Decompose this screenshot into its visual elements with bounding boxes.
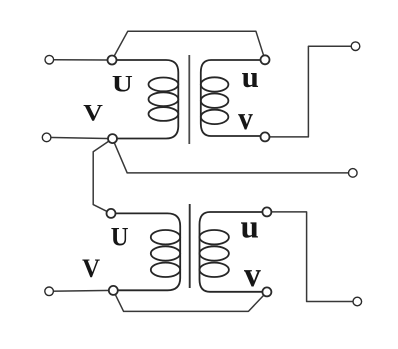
wire crossover bottom: V node under to v node (bottom transformer) bbox=[113, 290, 267, 311]
svg-text:U: U bbox=[112, 70, 133, 97]
transformer TR1 secondary winding loop 1 bbox=[201, 77, 229, 91]
transformer TR2 core bbox=[189, 204, 191, 288]
transformer TR1 primary winding outline bbox=[114, 60, 178, 139]
transformer TR1 core bbox=[188, 55, 190, 144]
svg-text:v: v bbox=[244, 255, 262, 294]
terminal top-right bbox=[351, 42, 360, 51]
transformer TR1 primary winding loop 2 bbox=[149, 92, 179, 106]
wire V node down-left to lower transformer U node bbox=[93, 139, 112, 214]
transformer TR1 secondary winding loop 3 bbox=[201, 110, 229, 124]
transformer TR1 secondary winding loop 2 bbox=[201, 94, 229, 108]
svg-text:V: V bbox=[83, 99, 103, 126]
wire crossover top: U node up over to u node (top transformer) bbox=[112, 31, 265, 60]
transformer TR2 secondary winding loop 3 bbox=[200, 263, 229, 277]
terminal mid-right bbox=[349, 169, 358, 178]
node U (TR2 primary top) bbox=[107, 209, 116, 218]
transformer TR2 secondary winding loop 1 bbox=[200, 230, 229, 244]
transformer TR2 primary winding loop 3 bbox=[151, 263, 180, 277]
transformer TR1 primary winding loop 3 bbox=[149, 107, 179, 121]
transformer TR2 secondary winding outline bbox=[200, 212, 265, 292]
transformer TR2 primary winding loop 1 bbox=[151, 230, 180, 244]
terminal mid-left bbox=[42, 133, 51, 142]
transformer TR2 secondary winding loop 2 bbox=[200, 246, 229, 260]
node V (TR1 primary bottom) bbox=[108, 134, 117, 143]
svg-text:u: u bbox=[242, 59, 259, 94]
node u (TR1 secondary top) bbox=[261, 55, 270, 64]
terminal bottom-right bbox=[353, 297, 362, 306]
terminal bottom-left bbox=[45, 287, 54, 296]
wire V node diagonal to right terminal (middle right) bbox=[113, 139, 353, 173]
wire u node to right terminal (bottom transformer) bbox=[267, 212, 357, 302]
wire left terminal to V node (bottom transformer) bbox=[49, 289, 113, 292]
wire right terminal down to v node (top transformer) bbox=[265, 46, 356, 137]
node V (TR2 primary bottom) bbox=[109, 286, 118, 295]
wire left terminal to V node (top transformer) bbox=[47, 137, 113, 138]
transformer TR2 primary winding loop 2 bbox=[151, 246, 180, 260]
svg-text:v: v bbox=[238, 99, 253, 136]
node u (TR2 secondary top) bbox=[262, 207, 271, 216]
terminal top-left bbox=[45, 55, 54, 64]
node v (TR2 secondary bottom) bbox=[262, 287, 271, 296]
node U (TR1 primary top) bbox=[108, 56, 117, 65]
svg-text:u: u bbox=[241, 209, 259, 245]
svg-text:U: U bbox=[111, 223, 129, 252]
node v (TR1 secondary bottom) bbox=[261, 132, 270, 141]
transformer TR1 secondary winding outline bbox=[201, 60, 262, 136]
transformer TR1 primary winding loop 1 bbox=[149, 78, 179, 92]
svg-text:V: V bbox=[82, 254, 101, 283]
wire left terminal to U node (top transformer) bbox=[54, 59, 107, 61]
transformer TR2 primary winding outline bbox=[113, 213, 180, 290]
